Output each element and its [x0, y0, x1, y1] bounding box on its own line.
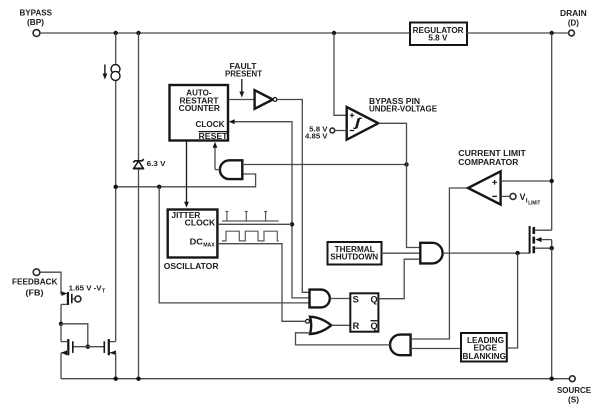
current limit comparator (left pointing) [468, 171, 501, 204]
wire gate drive to MOSFET gate [443, 252, 530, 254]
arrowhead clock into counter [229, 119, 235, 124]
junction rail-zener [136, 377, 140, 381]
wire current source vertical [115, 33, 117, 342]
leading edge blanking box [461, 333, 507, 362]
transistor M3 (mirror right) [104, 339, 116, 355]
junction gate-LEB [515, 251, 519, 255]
wire bp rail to UV plus input [334, 33, 347, 115]
thermal shutdown box [328, 242, 382, 265]
wire bias to S-AND bottom input [159, 187, 309, 303]
wire comparator output to LEB-AND top input [411, 188, 468, 339]
wire regulator to drain [467, 32, 569, 34]
svg-text:5.8 V: 5.8 V [428, 33, 448, 42]
wire LEB output up to gate line [507, 253, 518, 348]
bottom source rail [61, 378, 569, 380]
label 5.8V 4.85V [305, 124, 328, 140]
wire counter to oscillator jitter input [186, 142, 188, 204]
wire mirror node to gates [61, 324, 88, 347]
wire M2 source to rail [60, 353, 62, 379]
wire M1 source to mirror node [60, 304, 62, 323]
svg-text:DC: DC [190, 238, 204, 247]
junction bias-current-source [114, 185, 118, 189]
svg-text:Q: Q [371, 321, 378, 331]
OR gate (bubbled top input) [306, 317, 332, 334]
svg-text:CLOCK: CLOCK [196, 120, 225, 129]
svg-text:BLANKING: BLANKING [463, 352, 507, 361]
zener diode 6.3 V [133, 33, 166, 379]
svg-text:Q: Q [371, 294, 378, 304]
svg-text:OSCILLATOR: OSCILLATOR [164, 262, 219, 271]
wire UV output branch to reset-AND top input [242, 164, 406, 166]
SR latch box [350, 293, 378, 331]
wire gate line M2-M3 [73, 346, 105, 348]
arrow fault present [239, 79, 244, 98]
svg-text:BYPASS: BYPASS [20, 8, 53, 17]
junction clock [290, 222, 294, 226]
wire feedback to M1 drain [40, 272, 65, 293]
junction bp-current-source [114, 31, 118, 35]
wire comparator plus input to drain line [501, 180, 552, 182]
wire mosfet source down [551, 248, 553, 379]
wire S-AND output to S [330, 298, 350, 300]
junction bp-uv [332, 31, 336, 35]
junction drain [550, 31, 554, 35]
junction drain-comparator [550, 179, 554, 183]
wire clock output [217, 223, 292, 225]
wire reset-AND output to counter RESET [215, 169, 220, 171]
svg-text:RESET: RESET [199, 132, 228, 141]
auto-restart counter box U1 [170, 85, 229, 141]
wire drain vertical [551, 33, 553, 230]
svg-text:R: R [353, 321, 360, 331]
label 1.65 V -VT [69, 283, 106, 294]
label CURRENT LIMIT COMPARATOR [458, 149, 526, 167]
svg-text:(S): (S) [568, 395, 579, 404]
terminal SOURCE (S) [557, 376, 592, 404]
transistor M1 (feedback sense) [61, 291, 81, 305]
svg-text:6.3 V: 6.3 V [147, 159, 166, 168]
svg-text:CLOCK: CLOCK [185, 219, 216, 228]
wire clock net vertical [233, 122, 310, 298]
svg-text:S: S [353, 294, 359, 304]
gate-drive AND gate (3 input) [420, 243, 442, 264]
wire dcmax output to OR bubble [217, 244, 305, 322]
wire UV output [378, 123, 420, 247]
terminal BYPASS (BP) [20, 8, 53, 36]
svg-text:1.65 V -V: 1.65 V -V [69, 283, 102, 292]
svg-text:COMPARATOR: COMPARATOR [458, 158, 518, 167]
wire bias line y187 [116, 174, 256, 187]
label V ILIMIT [520, 192, 541, 207]
svg-text:SHUTDOWN: SHUTDOWN [330, 253, 378, 262]
svg-text:PRESENT: PRESENT [225, 69, 262, 78]
junction rail-mosfet [550, 377, 554, 381]
dcmax waveform glyph [222, 231, 279, 241]
wire OR output to R [331, 324, 350, 326]
UV minus input terminal circle [330, 128, 335, 133]
svg-text:LIMIT: LIMIT [528, 200, 540, 206]
regulator REGULATOR 5.8 V [410, 23, 467, 46]
junction uv branch [404, 162, 408, 166]
svg-text:(FB): (FB) [26, 288, 44, 297]
svg-text:4.85 V: 4.85 V [305, 131, 328, 140]
svg-text:COUNTER: COUNTER [179, 104, 220, 113]
junction mosfet source-body [550, 246, 554, 250]
UV comparator [347, 107, 379, 140]
S-AND gate (3 input) [310, 290, 330, 308]
terminal FEEDBACK (FB) [12, 269, 58, 297]
junction bp-zener [136, 31, 140, 35]
junction mirror node [59, 322, 63, 326]
wire LEB-AND output loop to OR bottom input [296, 333, 391, 345]
clock waveform glyph [222, 212, 279, 222]
wire inverter output to S-AND top input [277, 100, 310, 293]
wire counter to inverter [229, 99, 255, 101]
oscillator box [168, 210, 218, 258]
transistor M2 (mirror left) [61, 339, 73, 355]
wire Q output to gate-AND bottom input [378, 259, 420, 299]
junction bias-left-drop [157, 185, 161, 189]
junction rail-M3 [114, 377, 118, 381]
wire M3 source to rail [115, 353, 117, 379]
label FAULT PRESENT [225, 62, 262, 78]
svg-text:FEEDBACK: FEEDBACK [12, 277, 58, 286]
terminal DRAIN (D) [560, 9, 587, 36]
comparator minus input terminal [510, 193, 516, 199]
power MOSFET [530, 226, 552, 254]
label BYPASS PIN UNDER-VOLTAGE [369, 97, 438, 114]
svg-text:V: V [520, 192, 526, 202]
junction mirror gates [86, 345, 90, 349]
svg-text:SOURCE: SOURCE [557, 386, 592, 395]
wire top rail BP to regulator [40, 32, 409, 34]
wire M2 drain up to mirror node [60, 324, 62, 342]
svg-text:(D): (D) [568, 18, 579, 27]
svg-text:UNDER-VOLTAGE: UNDER-VOLTAGE [369, 104, 438, 113]
wire LEB box to LEB-AND bottom input [411, 348, 460, 350]
svg-text:(BP): (BP) [27, 18, 44, 27]
wire thermal shutdown to gate-AND middle input [382, 252, 421, 254]
reset AND gate (left pointing) [220, 160, 242, 179]
current source symbol [103, 64, 121, 80]
svg-text:MAX: MAX [203, 242, 215, 248]
LEB AND gate (left pointing, 2 input) [390, 335, 411, 356]
svg-text:DRAIN: DRAIN [560, 9, 587, 18]
inverter buffer fault [255, 90, 277, 109]
